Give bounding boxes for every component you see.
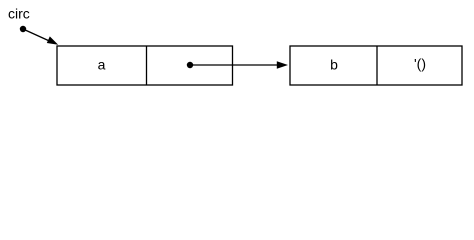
arrowhead cons1->cons2 bbox=[277, 61, 288, 68]
pointer dot circ bbox=[20, 26, 26, 32]
wire circ arrow shaft bbox=[23, 29, 51, 42]
svg-text:circ: circ bbox=[8, 6, 30, 22]
wire cons1->cons2 shaft bbox=[190, 64, 279, 66]
svg-text:a: a bbox=[98, 57, 106, 73]
divider cons1 bbox=[146, 46, 148, 85]
divider cons2 bbox=[376, 46, 378, 85]
box cons cell 2 bbox=[290, 46, 462, 85]
arrowhead circ->cons1 bbox=[47, 36, 58, 44]
cdr dot cons1 bbox=[187, 62, 193, 68]
svg-text:b: b bbox=[330, 57, 338, 73]
svg-text:'(): '() bbox=[414, 56, 426, 72]
box cons cell 1 bbox=[57, 46, 233, 85]
